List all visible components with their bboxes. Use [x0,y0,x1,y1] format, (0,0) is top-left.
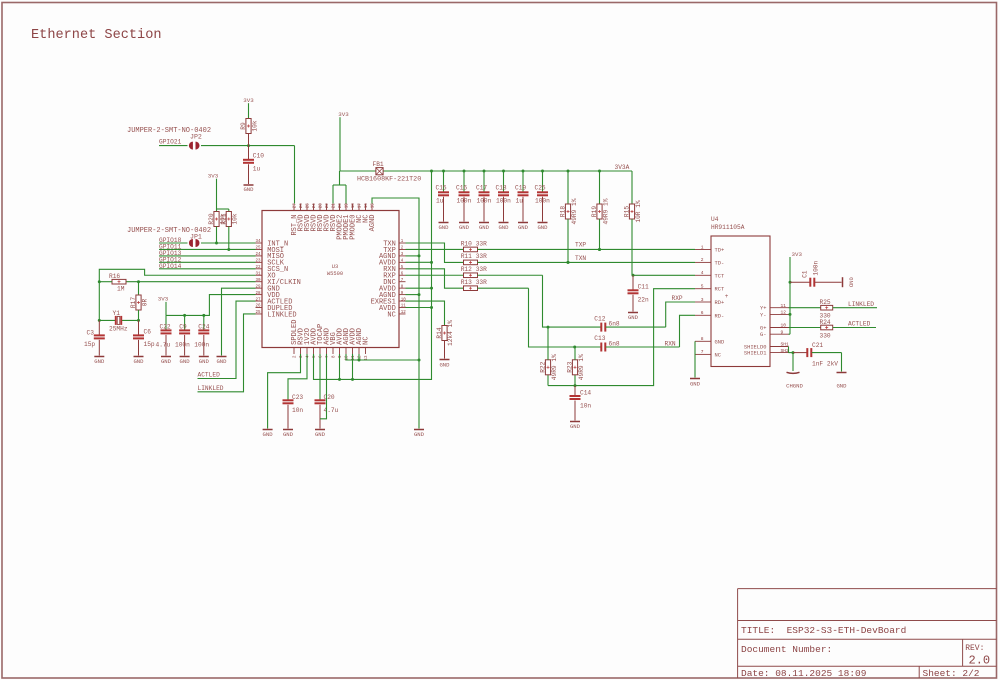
svg-text:GND: GND [498,224,509,231]
svg-text:GND: GND [848,277,855,288]
svg-text:TCT: TCT [715,273,725,279]
svg-text:100n: 100n [477,197,492,204]
svg-text:GND: GND [94,358,105,365]
svg-text:1M: 1M [117,285,125,292]
svg-text:49R9 1%: 49R9 1% [602,198,609,224]
svg-text:R15: R15 [624,206,631,217]
svg-text:SH1: SH1 [781,342,790,348]
svg-text:Sheet: 2/2: Sheet: 2/2 [923,668,980,679]
svg-text:10R 1%: 10R 1% [635,200,642,223]
svg-text:26: 26 [255,305,261,309]
svg-text:GND: GND [537,224,548,231]
svg-text:10n: 10n [292,407,303,414]
svg-text:3: 3 [701,297,704,303]
svg-text:GND: GND [715,339,725,345]
svg-text:Ethernet Section: Ethernet Section [31,28,162,43]
svg-text:NC: NC [363,336,371,344]
svg-text:1u: 1u [253,166,261,173]
svg-text:C16: C16 [456,184,467,191]
svg-text:26: 26 [300,203,304,209]
svg-text:GND: GND [570,423,581,430]
svg-text:8: 8 [701,336,704,342]
svg-text:RD+: RD+ [715,300,725,306]
svg-text:U3: U3 [332,264,338,270]
svg-text:25MHz: 25MHz [109,326,128,333]
svg-text:GND: GND [263,431,274,438]
svg-text:C6: C6 [144,328,152,335]
svg-text:33R: 33R [476,240,487,247]
svg-text:16: 16 [365,203,369,209]
svg-text:12: 12 [401,311,407,315]
svg-text:3V3: 3V3 [792,251,803,258]
svg-text:R11: R11 [461,253,472,260]
svg-text:GND: GND [439,362,450,369]
svg-text:25: 25 [307,203,311,209]
svg-text:GND: GND [283,431,294,438]
svg-text:4.7u: 4.7u [156,341,171,348]
svg-text:3V3: 3V3 [158,296,169,303]
svg-text:R22: R22 [540,361,547,372]
svg-text:C12: C12 [594,315,605,322]
svg-text:23: 23 [320,203,324,209]
svg-text:9: 9 [781,329,784,335]
svg-text:GND: GND [438,224,449,231]
svg-text:W5500: W5500 [327,271,343,277]
svg-text:C24: C24 [198,323,209,330]
svg-text:11: 11 [781,303,787,309]
svg-text:R20: R20 [208,213,215,224]
svg-text:Y+: Y+ [760,306,766,312]
svg-text:C19: C19 [515,184,526,191]
svg-text:TXP: TXP [575,242,586,249]
svg-text:10: 10 [401,298,407,302]
svg-text:29: 29 [255,285,261,289]
svg-text:G+: G+ [760,326,766,332]
svg-text:2.0: 2.0 [969,654,991,668]
svg-text:7: 7 [701,349,704,355]
svg-text:C13: C13 [594,335,605,342]
svg-text:33R: 33R [476,266,487,273]
svg-text:5: 5 [701,284,704,290]
svg-text:TITLE: ESP32-S3-ETH-DevBoard: TITLE: ESP32-S3-ETH-DevBoard [741,625,906,636]
svg-text:R14: R14 [436,327,443,338]
svg-text:15p: 15p [84,341,95,348]
svg-text:Y-: Y- [760,312,766,318]
svg-text:ACTLED: ACTLED [198,372,221,379]
svg-text:34: 34 [255,240,261,244]
svg-text:ACTLED: ACTLED [848,321,871,328]
svg-text:25: 25 [255,311,261,315]
svg-text:GND: GND [315,431,326,438]
svg-text:GND: GND [161,358,172,365]
svg-text:330: 330 [820,332,831,339]
svg-text:22: 22 [255,266,261,270]
svg-text:49R9 1%: 49R9 1% [578,354,585,380]
svg-text:3V3: 3V3 [243,97,254,104]
svg-text:R10: R10 [461,240,472,247]
svg-text:Y1: Y1 [113,310,121,317]
svg-text:RD-: RD- [715,313,725,319]
svg-text:4: 4 [701,270,704,276]
svg-text:1u: 1u [516,197,524,204]
svg-text:49R9 1%: 49R9 1% [571,198,578,224]
svg-text:100n: 100n [813,260,820,275]
svg-text:C1: C1 [802,270,809,278]
svg-text:27: 27 [294,203,298,209]
svg-text:C23: C23 [292,394,303,401]
svg-text:C10: C10 [253,152,264,159]
svg-text:15p: 15p [144,341,155,348]
svg-text:HCB1608KF-221T20: HCB1608KF-221T20 [357,175,421,183]
svg-text:Document Number:: Document Number: [741,644,832,655]
svg-text:SHIELD1: SHIELD1 [744,351,767,357]
svg-text:C14: C14 [580,390,591,397]
svg-text:RCT: RCT [715,287,725,293]
svg-text:0R: 0R [141,299,148,307]
svg-text:R12: R12 [461,266,472,273]
svg-text:+: + [725,293,729,300]
svg-text:C18: C18 [496,184,507,191]
svg-text:10: 10 [781,323,787,329]
svg-text:TD+: TD+ [715,248,725,254]
svg-text:SHIELD0: SHIELD0 [744,345,767,351]
svg-text:NC: NC [387,311,395,319]
svg-text:C9: C9 [179,323,187,330]
svg-text:GND: GND [180,358,191,365]
svg-text:FB1: FB1 [373,161,384,168]
svg-text:Date: 08.11.2025 18:09: Date: 08.11.2025 18:09 [741,668,867,679]
svg-text:12k4 1%: 12k4 1% [447,320,454,346]
svg-text:TD-: TD- [715,260,725,266]
svg-text:27: 27 [255,298,261,302]
svg-text:33R: 33R [476,279,487,286]
svg-text:10k: 10k [232,213,239,224]
svg-text:GND: GND [133,358,144,365]
svg-text:G-: G- [760,332,766,338]
svg-text:U4: U4 [711,216,719,223]
svg-text:100n: 100n [496,197,511,204]
svg-text:23: 23 [255,260,261,264]
svg-text:100n: 100n [194,341,209,348]
svg-text:22: 22 [326,203,330,209]
svg-text:100n: 100n [175,341,190,348]
svg-text:R18: R18 [560,206,567,217]
svg-text:3V3A: 3V3A [615,164,630,171]
svg-text:AGND: AGND [369,215,377,232]
svg-text:HR911105A: HR911105A [711,224,745,231]
svg-text:GND: GND [628,314,639,321]
svg-text:19: 19 [346,203,350,209]
svg-text:C11: C11 [638,284,649,291]
svg-text:GND: GND [199,358,210,365]
svg-text:18: 18 [352,203,356,209]
svg-text:GND: GND [690,380,701,387]
svg-text:SH2: SH2 [781,348,790,354]
svg-text:17: 17 [359,203,363,209]
svg-text:11: 11 [401,305,407,309]
svg-text:GND: GND [243,186,254,193]
svg-text:4.7u: 4.7u [324,407,339,414]
svg-text:24: 24 [313,203,317,209]
svg-text:LINKLED: LINKLED [848,301,874,308]
svg-text:R16: R16 [109,273,120,280]
svg-text:R23: R23 [567,361,574,372]
svg-text:28: 28 [255,292,261,296]
svg-text:LINKLED: LINKLED [198,385,224,392]
svg-text:GND: GND [216,358,227,365]
svg-text:20: 20 [339,203,343,209]
svg-text:R9: R9 [240,122,247,130]
svg-text:TXN: TXN [575,255,586,262]
svg-text:25: 25 [255,247,261,251]
svg-text:GND: GND [459,224,470,231]
svg-text:CHGND: CHGND [786,382,803,389]
svg-text:12: 12 [781,310,787,316]
svg-text:100n: 100n [457,197,472,204]
svg-text:R13: R13 [461,279,472,286]
svg-text:NC: NC [715,352,721,358]
svg-text:1: 1 [701,244,704,250]
svg-text:GND: GND [518,224,529,231]
svg-text:C15: C15 [436,184,447,191]
svg-text:30: 30 [255,279,261,283]
svg-text:10k: 10k [251,120,258,131]
svg-text:15: 15 [372,203,376,209]
svg-text:C20: C20 [324,394,335,401]
svg-text:21: 21 [333,203,337,209]
svg-text:LINKLED: LINKLED [267,311,296,319]
svg-text:10n: 10n [580,403,591,410]
svg-text:C17: C17 [476,184,487,191]
svg-text:6: 6 [701,310,704,316]
svg-text:24: 24 [255,253,261,257]
svg-text:R21: R21 [220,213,227,224]
svg-text:REV:: REV: [965,644,984,653]
svg-text:JP2: JP2 [190,134,202,141]
svg-text:R17: R17 [130,297,137,308]
svg-text:33R: 33R [476,253,487,260]
svg-text:C21: C21 [812,342,823,349]
svg-text:R24: R24 [820,319,831,326]
svg-text:22n: 22n [638,296,649,303]
svg-text:GND: GND [414,431,425,438]
svg-text:C22: C22 [160,323,171,330]
svg-text:1nF 2kV: 1nF 2kV [812,360,838,367]
svg-text:3V3: 3V3 [208,173,219,180]
svg-text:R19: R19 [591,206,598,217]
svg-text:GND: GND [836,382,847,389]
svg-text:100n: 100n [535,197,550,204]
svg-text:C25: C25 [535,184,546,191]
svg-text:1u: 1u [436,197,444,204]
svg-text:2: 2 [701,257,704,263]
svg-text:GND: GND [479,224,490,231]
svg-text:C3: C3 [87,329,95,336]
svg-text:GPIO21: GPIO21 [159,138,182,145]
svg-text:RXN: RXN [665,340,676,347]
svg-text:R25: R25 [820,299,831,306]
svg-text:RXP: RXP [672,295,683,302]
svg-text:31: 31 [255,272,261,276]
svg-text:49R9 1%: 49R9 1% [551,354,558,380]
svg-text:3V3: 3V3 [338,111,349,118]
